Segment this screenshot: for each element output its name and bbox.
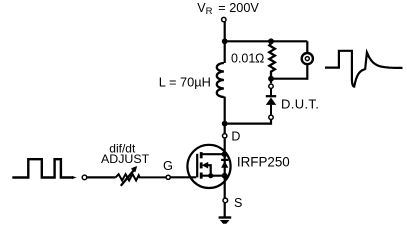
svg-text:S: S <box>234 196 242 210</box>
svg-text:Ω: Ω <box>255 52 264 66</box>
svg-text:0.01: 0.01 <box>231 52 255 66</box>
svg-text:IRFP250: IRFP250 <box>237 154 290 169</box>
svg-text:L = 70µH: L = 70µH <box>159 74 211 89</box>
svg-text:ADJUST: ADJUST <box>101 152 150 166</box>
svg-text:R: R <box>206 6 213 17</box>
svg-text:D.U.T.: D.U.T. <box>281 96 319 111</box>
svg-text:G: G <box>163 158 173 173</box>
svg-text:D: D <box>231 130 240 144</box>
svg-text:= 200V: = 200V <box>218 1 259 15</box>
